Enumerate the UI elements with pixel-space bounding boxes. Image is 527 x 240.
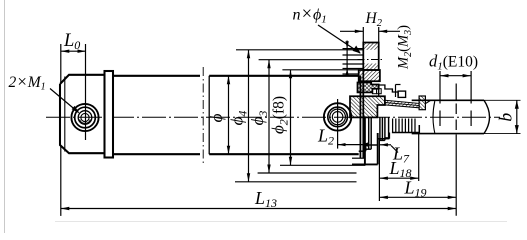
phi3 ext top	[259, 59, 364, 61]
scan artifact left edge	[4, 0, 6, 233]
L2 arrows	[338, 143, 346, 146]
2xM1 leader	[50, 89, 79, 113]
rod start chamfer	[425, 100, 430, 103]
L19 right ext	[455, 84, 457, 216]
svg-text:ϕ: ϕ	[207, 113, 226, 122]
L0 dimension line	[61, 50, 86, 52]
phi3 ext bottom	[258, 172, 357, 174]
flange plate top half	[363, 43, 378, 71]
main centerline	[46, 116, 500, 118]
piston rod	[412, 99, 484, 101]
phi4 ext top	[236, 49, 363, 51]
bottom half: flange plate exterior	[352, 117, 378, 164]
port boss right: circles	[324, 103, 351, 130]
phi2 dim line	[290, 70, 292, 166]
groove squares	[372, 89, 376, 94]
cap chamfer inner line	[64, 77, 66, 152]
phi4 arrows	[247, 50, 250, 59]
L19 arrows	[379, 196, 388, 199]
svg-text:b: b	[496, 113, 516, 122]
port boss M1 left: circles	[71, 104, 98, 131]
body end face lines	[359, 76, 361, 158]
H2 ext lines	[362, 27, 364, 43]
phi1 arrow line	[346, 41, 348, 75]
phi2 arrows	[289, 70, 292, 79]
phi2 ext top	[282, 69, 358, 71]
b arrows	[515, 100, 519, 109]
phi arrows	[227, 76, 230, 85]
H2 arrows	[355, 30, 364, 33]
thread wedge M2	[385, 100, 419, 108]
b extension lines	[484, 99, 521, 101]
L13 dim line	[61, 208, 456, 210]
phi2 ext bottom	[280, 164, 365, 166]
left end cap	[60, 75, 105, 153]
L2 dim line	[338, 144, 367, 146]
collar hatched	[359, 70, 380, 81]
nxphi1 leader	[318, 25, 360, 53]
rod transition arc	[433, 101, 435, 133]
L7 arrow	[380, 143, 388, 146]
b dim line	[516, 100, 518, 133]
body bottom line	[113, 153, 359, 155]
H2 dim line	[340, 30, 363, 32]
L18 L19 shared ext	[378, 138, 380, 201]
phi1 small arrows	[345, 41, 348, 49]
d1 dim line	[440, 75, 471, 77]
d1 ext lines	[439, 71, 441, 126]
body top line	[113, 75, 359, 77]
L7 arrow line	[380, 144, 391, 146]
white steps	[379, 85, 398, 96]
svg-text:d1(E10): d1(E10)	[429, 52, 478, 73]
L2 boss centerline	[337, 99, 339, 149]
L19 dim line	[379, 196, 456, 198]
right flange and gland assembly	[343, 43, 521, 165]
L0 arrows	[61, 50, 70, 53]
phi4 dim line	[248, 50, 250, 182]
bolt circle centerline	[358, 59, 385, 61]
gland body block B hatched	[350, 96, 385, 117]
L18 arrows	[379, 177, 388, 180]
phi4 ext bottom	[235, 181, 357, 183]
M2 leader	[395, 85, 397, 98]
break line solid	[208, 76, 210, 154]
L18 right ext	[418, 134, 420, 181]
collar ring	[105, 71, 114, 158]
stepped lines at face	[343, 49, 364, 74]
rod end break arc	[484, 100, 490, 133]
phi3 dim line	[268, 60, 270, 173]
L13 arrows	[61, 207, 70, 210]
gland ring verticals bottom	[393, 119, 415, 133]
L0 extension lines	[60, 44, 62, 84]
phi dim line	[228, 76, 230, 154]
phi3 arrows	[267, 60, 270, 68]
gland seal block A hatched	[358, 83, 379, 93]
svg-text:2×M1: 2×M1	[9, 72, 46, 93]
svg-text:ϕ2(f8): ϕ2(f8)	[269, 96, 291, 134]
bottom steps	[359, 117, 420, 151]
retainer ring	[419, 96, 425, 110]
break line dashdot	[202, 67, 204, 163]
arrowheads	[61, 30, 519, 211]
d1 arrows	[440, 74, 449, 77]
scan artifact bottom	[55, 221, 507, 223]
2xM1 leader arrow	[72, 106, 80, 113]
L18 dim line	[379, 177, 418, 179]
nxphi1 leader arrow	[353, 46, 361, 54]
